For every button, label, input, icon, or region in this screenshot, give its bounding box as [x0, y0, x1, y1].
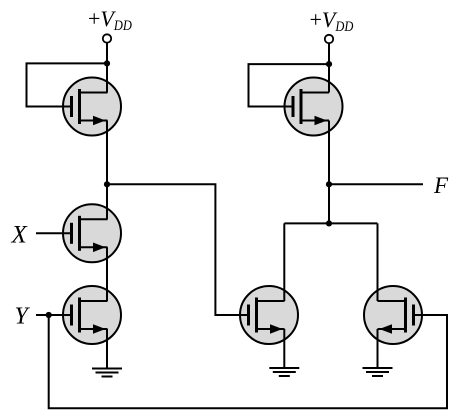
wire Y input to Q3 gate [36, 314, 72, 316]
transistor Q6 (NMOS, parallel right, mirrored) [364, 286, 422, 344]
junction dot Q4 drain-gate [326, 61, 332, 67]
junction dot node stage-1 output [104, 181, 110, 187]
wire Q2 source to Q3 drain [106, 247, 108, 301]
svg-text:X: X [11, 221, 29, 248]
svg-text:+VDD: +VDD [88, 6, 132, 34]
transistor Q1 (NMOS load, stage 1) [63, 78, 121, 136]
junction dot Q1 drain-gate [104, 60, 110, 66]
wire Q4 gate feedback loop [249, 64, 330, 106]
wire Q4 source down to parallel node [328, 121, 330, 224]
wire Q5 drain [283, 223, 285, 301]
ground (stage 1) [92, 369, 122, 377]
junction dot parallel node [326, 220, 332, 226]
transistor Q5 (NMOS, parallel left) [240, 286, 298, 344]
wire X input to Q2 gate [36, 232, 72, 234]
svg-text:+VDD: +VDD [310, 7, 354, 35]
wire VDD1 to Q1 drain [106, 43, 108, 93]
transistor Q3 (NMOS, input Y) [63, 286, 121, 344]
wire Q6 source to ground [377, 329, 379, 368]
wire VDD2 to Q4 drain [328, 43, 330, 92]
wire Y node to bottom rail to Q6 gate [49, 315, 447, 408]
transistor Q2 (NMOS, input X) [63, 204, 121, 262]
wire node F to output label [329, 183, 423, 185]
wire Q3 source to ground [106, 329, 108, 369]
transistor Q4 (NMOS load, stage 2) [285, 78, 343, 136]
wire Q5 source to ground [283, 329, 285, 368]
power terminal VDD1 [103, 34, 111, 42]
wire Q1 source to Q2 drain [106, 121, 108, 220]
ground (Q5) [269, 368, 299, 376]
wire stage-1 output to Q5 gate [107, 184, 248, 315]
svg-text:F: F [433, 173, 449, 198]
junction dot node Y [46, 312, 52, 318]
svg-text:Y: Y [15, 303, 31, 329]
wire Q6 drain [377, 223, 379, 301]
wire Q1 gate feedback loop [27, 63, 108, 106]
ground (Q6) [363, 368, 393, 376]
wire parallel node horizontal [284, 222, 377, 224]
power terminal VDD2 [325, 35, 333, 43]
junction dot node F [326, 181, 332, 187]
